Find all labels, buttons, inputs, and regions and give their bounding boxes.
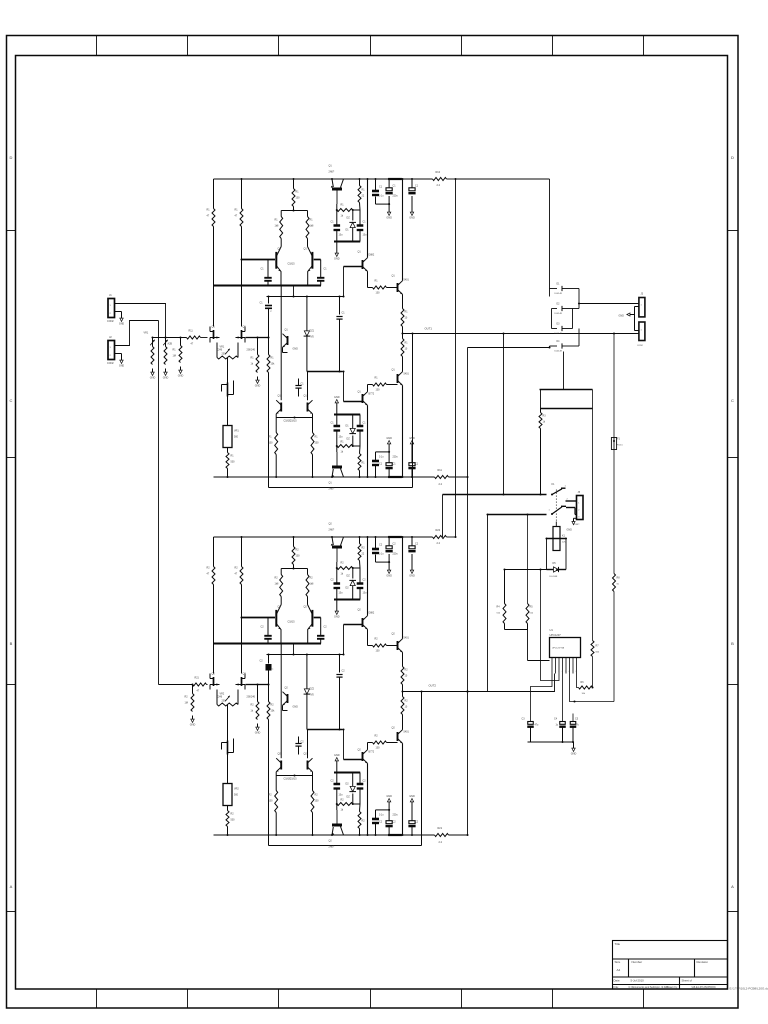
transistor Q14 C1815 [276, 247, 295, 286]
svg-text:A: A [731, 884, 734, 889]
wire caps join lower [376, 451, 390, 453]
wire VAS base bus [344, 624, 363, 626]
resistor R17 1k8 [275, 211, 283, 247]
capacitor C113 fat low [372, 452, 384, 478]
capacitor C14 [295, 379, 304, 397]
capacitor C13 compensation [260, 295, 273, 338]
svg-text:1: 1 [551, 671, 552, 673]
resistor R113 100 [373, 377, 387, 392]
capacitor C111 220u [386, 178, 399, 204]
wire Q10 collector [402, 179, 404, 281]
transistor Q11 2SK246 JFET [210, 326, 223, 352]
wire rail stub [449, 834, 468, 836]
resistor R14 1k [251, 338, 260, 373]
diode D5 DL4148 [550, 284, 569, 296]
svg-text:GND: GND [163, 377, 169, 380]
svg-text:1k8: 1k8 [310, 583, 315, 586]
svg-text:1k8: 1k8 [275, 225, 280, 228]
transistor Q23 current source [222, 739, 234, 755]
wire bias bottom bar [334, 599, 360, 601]
wire to feedback resistor [258, 337, 269, 339]
trimmer VR12 500 [223, 426, 239, 448]
resistor R28 1k8 [306, 569, 314, 605]
svg-text:500: 500 [234, 794, 239, 797]
resistor R111 100 [373, 280, 387, 295]
svg-text:10u: 10u [339, 794, 344, 797]
capacitor C15 miller [336, 295, 345, 371]
resistor R11 47k [207, 179, 216, 327]
wire pin6 route [570, 674, 575, 702]
transistor Q18 C1815 [290, 372, 313, 423]
capacitor C210 fat [372, 536, 384, 562]
svg-text:2N6?: 2N6? [329, 529, 335, 532]
relay K1 contact 1 [551, 483, 567, 496]
capacitor C27 10u [357, 568, 367, 600]
wire emitter rail thick [214, 285, 322, 287]
wire split bar [281, 568, 307, 570]
wire OUT1 into connector J4 [638, 333, 639, 335]
title block [613, 941, 728, 990]
svg-text:Drawn by:: Drawn by: [667, 986, 679, 989]
svg-text:Number: Number [632, 960, 643, 964]
transistor Q114 2N6609 bottom [329, 452, 344, 491]
wire diode return to relay supply [563, 352, 565, 390]
svg-text:2: 2 [555, 671, 556, 673]
resistor R12 47k [235, 178, 244, 327]
wire to feedback resistor [258, 684, 269, 686]
transistor Q25 C1815 [304, 605, 313, 644]
resistor R211 100 [373, 638, 387, 653]
svg-text:3: 3 [558, 671, 559, 673]
wire input ch2 [159, 684, 193, 686]
resistor R210 100 [311, 776, 319, 837]
resistor R24 1k [251, 685, 260, 720]
capacitor C29 10u [357, 773, 367, 805]
wire lower mirror bus thick [307, 729, 343, 731]
fuse F1 [611, 334, 623, 450]
transistor Q213 2N6609 top [329, 523, 344, 563]
resistor R115 1k bias [336, 204, 360, 218]
svg-text:5401: 5401 [404, 373, 410, 376]
diode D22 zener [346, 568, 357, 601]
svg-text:Sheet of: Sheet of [682, 979, 693, 983]
wire diode ladder right legs [569, 288, 580, 290]
capacitor C213 fat low [372, 810, 384, 836]
capacitor C53 47u [570, 714, 580, 743]
svg-text:DZ2: DZ2 [310, 688, 315, 691]
svg-text:Revision: Revision [697, 960, 709, 964]
wire Q12 emitter [402, 715, 404, 730]
diode D8 DL4148 [550, 341, 569, 353]
connector J3 speaker out [639, 293, 645, 317]
potentiometer VR21 200 [217, 690, 238, 707]
resistor R44 47 series ch2 [193, 677, 208, 693]
svg-text:500: 500 [231, 819, 236, 822]
svg-text:100: 100 [269, 442, 274, 445]
svg-text:GND: GND [293, 706, 299, 709]
svg-text:GND: GND [334, 754, 340, 757]
diode D12 zener [346, 210, 357, 243]
wire pin8 route [577, 674, 579, 688]
wire top rail to diode ladder [456, 178, 550, 180]
capacitor C24 [295, 737, 304, 755]
svg-text:R20: R20 [436, 529, 441, 532]
IC U1 pins [551, 658, 577, 674]
svg-text:0.1u: 0.1u [379, 196, 384, 198]
svg-text:220u: 220u [393, 457, 399, 459]
svg-text:A4: A4 [617, 968, 621, 972]
wire mirror base join [275, 414, 277, 418]
svg-text:GND: GND [409, 217, 415, 220]
ground cap right upper [409, 567, 415, 578]
capacitor C114 220u low [386, 452, 399, 478]
svg-text:GND: GND [619, 315, 625, 318]
svg-text:DZ: DZ [347, 575, 351, 578]
wire relay drive node [505, 569, 547, 571]
svg-text:DZ: DZ [347, 217, 351, 220]
diode D9 DL4148 flyback [547, 562, 567, 578]
wire OUT2 node [403, 691, 488, 693]
ground bias lower [334, 396, 340, 415]
ground R41 [178, 367, 184, 378]
resistor R27 1k8 [275, 569, 283, 605]
wire caps join upper [376, 203, 390, 205]
ground R14 [255, 377, 261, 388]
capacitor C212 0.1u [408, 536, 418, 567]
wire split bar [281, 210, 307, 212]
wire VAS base bus [344, 266, 363, 268]
svg-text:7: 7 [572, 671, 573, 673]
connector J5 relay [574, 491, 584, 526]
trimmer VR22 500 [223, 784, 239, 806]
capacitor C52 1u [554, 718, 566, 743]
svg-text:B: B [10, 641, 13, 646]
resistor R216 [358, 536, 365, 568]
svg-text:2.2: 2.2 [437, 184, 441, 187]
svg-text:100: 100 [296, 197, 301, 200]
svg-text:VR2: VR2 [234, 788, 239, 791]
svg-text:B772: B772 [369, 393, 375, 396]
transistor Q26 tail [283, 687, 299, 711]
wire caps join lower [376, 809, 390, 811]
svg-text:UPC1237 HA: UPC1237 HA [552, 647, 565, 650]
svg-text:100: 100 [376, 747, 381, 750]
potentiometer VR14 level ch1 [163, 338, 172, 365]
svg-text:GND: GND [255, 385, 261, 388]
capacitor C17 10u [357, 210, 367, 242]
svg-text:100: 100 [315, 800, 320, 803]
resistor R10b rail bottom [435, 469, 449, 486]
resistor R110 100 [311, 418, 319, 479]
ground cap right lower [409, 437, 415, 448]
svg-text:D882: D882 [369, 612, 375, 615]
capacitor C23 compensation [260, 653, 274, 685]
svg-text:2N6?: 2N6? [329, 488, 335, 491]
wire -V bus vertical [467, 348, 469, 836]
wire base feed thick [242, 617, 276, 619]
capacitor C12 [317, 260, 327, 286]
svg-text:1M: 1M [173, 355, 176, 358]
wire OUT2 to relay contact [488, 514, 547, 516]
svg-text:DZ: DZ [347, 796, 351, 799]
capacitor C215 0.1u low [408, 806, 418, 837]
wire Q2 source node [246, 337, 258, 339]
svg-text:2.2: 2.2 [437, 542, 441, 545]
ground VR14 [163, 369, 169, 380]
wire sense join [504, 624, 506, 630]
svg-text:2.2: 2.2 [439, 483, 443, 486]
svg-text:2.2: 2.2 [439, 841, 443, 844]
wire -V rail channel 1 [214, 476, 435, 478]
resistor R16 100 [292, 178, 300, 211]
wire to speaker connector J3 [579, 303, 639, 305]
wire relay coil bar [547, 538, 567, 540]
svg-text:5401: 5401 [404, 731, 410, 734]
resistor R54 10k [579, 681, 593, 695]
svg-text:B: B [731, 641, 734, 646]
wire second stage node [267, 654, 344, 656]
svg-text:2SK246: 2SK246 [247, 349, 256, 352]
svg-text:GND: GND [334, 616, 340, 619]
wire base right thick [314, 259, 321, 261]
svg-text:E:\1?1?\10L2-PCB8\L20G.ddb: E:\1?1?\10L2-PCB8\L20G.ddb [730, 987, 768, 991]
transistor Q21 2SK246 JFET [210, 673, 223, 699]
wire pin5 sense OUT2 [468, 674, 555, 692]
svg-text:DZ: DZ [347, 438, 351, 441]
svg-text:GND: GND [334, 258, 340, 261]
transistor Q110 2N5401 [387, 275, 410, 295]
ground relay connector [567, 518, 577, 531]
svg-text:U1: U1 [550, 628, 554, 632]
svg-text:C:\Documents and Settings\..\2: C:\Documents and Settings\..\2.Ddb [629, 986, 669, 989]
svg-text:GND: GND [409, 575, 415, 578]
resistor R19 100 [269, 418, 278, 479]
svg-text:R21: R21 [438, 827, 443, 830]
svg-text:220u: 220u [393, 815, 399, 817]
svg-text:Title: Title [615, 942, 621, 946]
ground caps upper [386, 204, 392, 219]
wire Q9 emitter [367, 629, 369, 645]
resistor R114 10 [401, 334, 408, 357]
wire feedback loop [268, 720, 270, 846]
transistor Q27 C1815 [276, 642, 291, 780]
capacitor C11 [261, 260, 272, 286]
ground protector [571, 742, 577, 756]
svg-text:0.1u: 0.1u [379, 554, 384, 556]
wire base feed thick [242, 259, 276, 261]
svg-text:File:: File: [614, 985, 620, 989]
wire Q9 emitter [367, 271, 369, 287]
resistor R20a rail top [433, 529, 447, 545]
resistor R56 5k [613, 574, 621, 592]
transistor Q112 2N5401 [387, 369, 410, 386]
svg-text:DL4148: DL4148 [555, 313, 563, 315]
ground R24 [255, 724, 261, 735]
svg-text:2N6?: 2N6? [329, 171, 335, 174]
wire pin1 route [531, 674, 553, 722]
capacitor C110 fat [372, 178, 384, 204]
transistor Q113 2N6609 top [329, 165, 344, 205]
svg-text:GND: GND [567, 529, 573, 532]
ground bias lower [334, 754, 340, 773]
ground J2 [118, 354, 124, 368]
amplifier channel 1 [207, 165, 468, 491]
svg-text:100: 100 [376, 292, 381, 295]
wire second stage node [267, 296, 344, 298]
wire input ch1 [153, 337, 187, 339]
svg-text:C: C [10, 398, 13, 403]
wire base right thick [314, 617, 321, 619]
wire Q11 emitter [367, 743, 369, 750]
wire sense to IC [527, 630, 529, 661]
wire OUT1 node [403, 333, 638, 335]
svg-text:6: 6 [569, 671, 570, 673]
diode D6 DL4148 [552, 304, 569, 316]
svg-text:OUT2: OUT2 [429, 684, 437, 688]
transistor Q16 tail [283, 329, 299, 353]
wire rail stub [447, 536, 456, 538]
wire protector ground rail [528, 741, 574, 743]
transistor Q17 C1815 [276, 284, 291, 422]
svg-text:2N6?: 2N6? [329, 846, 335, 849]
relay K1 coil [553, 522, 566, 551]
svg-text:C1815: C1815 [290, 420, 298, 423]
svg-text:10u: 10u [339, 234, 344, 237]
ground J1 [118, 312, 124, 326]
transistor Q19 D882 [358, 251, 375, 272]
wire lower mirror bus thick [307, 371, 343, 373]
zener D21 7V5 [304, 655, 315, 730]
resistor R217 1k bias low [336, 799, 360, 812]
resistor R212 10 [401, 667, 408, 693]
svg-text:DL4148: DL4148 [555, 333, 563, 335]
resistor R218 [358, 804, 365, 836]
svg-text:10u: 10u [363, 592, 368, 595]
capacitor C18 10u [331, 415, 344, 447]
transistor Q12 2SK246 JFET [236, 326, 256, 352]
wire Q2 source node [246, 684, 258, 686]
wire to trimmer [227, 397, 229, 426]
transistor Q24 C1815 [276, 605, 295, 644]
svg-text:R11: R11 [189, 330, 194, 333]
wire pin3 route [541, 570, 560, 681]
wire Q10 collector [402, 537, 404, 639]
connector J4 speaker out [637, 322, 645, 347]
svg-text:10u: 10u [363, 234, 368, 237]
wire bias top bar low [334, 414, 360, 416]
svg-text:GND: GND [150, 377, 156, 380]
connector J2 input [107, 335, 118, 365]
transistor Q211 B772 [358, 749, 375, 764]
wire Q10 emitter [402, 294, 404, 308]
svg-text:CON2: CON2 [107, 320, 114, 323]
resistor R118 [358, 446, 365, 478]
capacitor C22 [317, 618, 327, 644]
wire wiper [227, 358, 229, 383]
capacitor C115 0.1u low [408, 448, 418, 479]
svg-text:C1815: C1815 [290, 778, 298, 781]
resistor R215 1k bias [336, 562, 360, 576]
svg-text:VR2: VR2 [220, 693, 225, 696]
svg-text:B772: B772 [369, 751, 375, 754]
svg-text:UPC1237: UPC1237 [550, 633, 562, 637]
svg-text:10u: 10u [339, 592, 344, 595]
resistor R43 1M shunt ch2 [185, 685, 195, 712]
ground bias upper [334, 600, 340, 619]
svg-text:CON2: CON2 [637, 345, 644, 347]
wire +V bus vertical [455, 179, 457, 537]
svg-text:GND: GND [386, 437, 392, 440]
svg-text:VR1: VR1 [220, 346, 225, 349]
resistor R15 feedback [267, 338, 275, 373]
wire -V rail channel 2 [214, 834, 435, 836]
svg-text:C1815: C1815 [288, 621, 296, 624]
transistor Q13 current source [222, 381, 234, 397]
relay contact outputs [566, 500, 577, 502]
svg-text:1M: 1M [185, 702, 188, 705]
wire tail [293, 286, 295, 297]
wire Q9 collector [367, 179, 369, 258]
svg-text:5401: 5401 [404, 637, 410, 640]
svg-text:A2B: A2B [168, 343, 173, 346]
wire emitter rail thick [214, 643, 322, 645]
connector J1 input [107, 293, 118, 323]
svg-text:GND: GND [190, 724, 196, 727]
wire Q11 collector [367, 405, 369, 477]
wire relay supply bar [541, 408, 593, 410]
svg-text:4: 4 [562, 671, 563, 673]
wire caps join upper [376, 561, 390, 563]
svg-text:200: 200 [222, 700, 227, 703]
wire tail [293, 644, 295, 655]
resistor R55 5k6 inline [591, 390, 600, 689]
potentiometer VR11 200 [217, 343, 238, 360]
svg-text:DL4148: DL4148 [555, 293, 563, 295]
svg-text:CON?: CON? [574, 524, 581, 526]
transistor Q111 B772 [358, 391, 375, 406]
svg-text:8: 8 [576, 671, 577, 673]
resistor R20b rail bottom [435, 827, 449, 844]
wire mirror base join [275, 772, 277, 776]
diode D7 DL4148 [552, 324, 569, 336]
transistor Q214 2N6609 bottom [329, 810, 344, 849]
transistor Q210 2N5401 [387, 633, 410, 653]
wire rail stub [447, 178, 456, 180]
resistor R112 10 [401, 309, 408, 335]
svg-text:A: A [10, 884, 13, 889]
transistor Q22 2SK246 JFET [236, 673, 256, 699]
wire Q12 collector [402, 743, 404, 835]
svg-text:VR1: VR1 [234, 430, 239, 433]
ground caps lower [386, 437, 392, 452]
wire feedback loop [268, 373, 270, 488]
resistor R214 10 [401, 692, 408, 715]
capacitor C112 0.1u [408, 178, 418, 209]
resistor R18 1k8 [306, 211, 314, 247]
potentiometer VR13 level ch1 [144, 332, 155, 365]
wire J1 to channel1 input [118, 304, 166, 338]
zone letters [10, 155, 735, 889]
wire down to diodes [549, 179, 551, 289]
resistor R13 500 [226, 448, 235, 479]
wire fuse down [613, 450, 615, 574]
resistor R213 100 [373, 735, 387, 750]
ground speaker return bracket [619, 307, 639, 331]
wire wiper [227, 705, 229, 741]
resistor R52 51k [497, 570, 507, 624]
ground caps lower [386, 795, 392, 810]
wire Q11 emitter [367, 385, 369, 392]
